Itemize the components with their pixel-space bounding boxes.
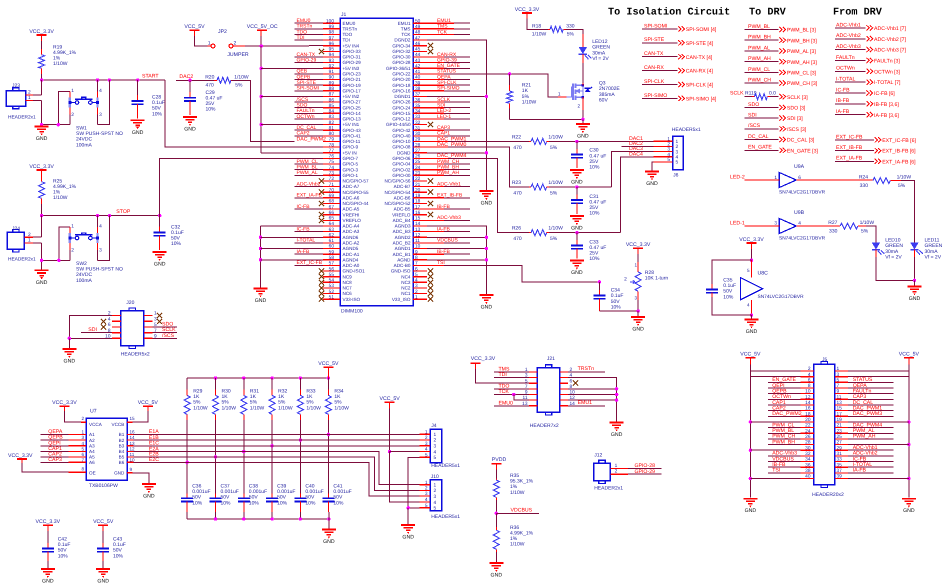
svg-text:71: 71 bbox=[329, 182, 335, 188]
svg-text:ADC-A0: ADC-A0 bbox=[343, 263, 360, 268]
svg-text:74: 74 bbox=[329, 165, 335, 171]
svg-text:17: 17 bbox=[837, 411, 843, 417]
svg-text:37: 37 bbox=[415, 92, 421, 98]
svg-text:B6: B6 bbox=[119, 460, 125, 465]
svg-text:R24: R24 bbox=[859, 175, 868, 181]
svg-text:I-TOTAL: I-TOTAL bbox=[836, 77, 856, 83]
svg-text:85: 85 bbox=[329, 103, 335, 109]
svg-text:PWM_BH: PWM_BH bbox=[748, 35, 771, 41]
svg-text:10: 10 bbox=[805, 389, 811, 395]
svg-text:DAC4: DAC4 bbox=[629, 151, 643, 157]
resistor R21 bbox=[509, 74, 511, 85]
svg-text:DAC_PWM3: DAC_PWM3 bbox=[853, 411, 883, 417]
ground below J20 bbox=[62, 349, 76, 354]
svg-text:100mA: 100mA bbox=[76, 142, 93, 148]
wire rail to GND vertical at J23 bbox=[42, 124, 59, 126]
svg-text:2: 2 bbox=[808, 366, 811, 372]
svg-text:1/10W: 1/10W bbox=[510, 542, 525, 548]
ground for left GND bus bbox=[254, 289, 268, 294]
svg-text:J4: J4 bbox=[431, 423, 437, 429]
svg-text:AGND5: AGND5 bbox=[343, 246, 359, 251]
capacitor C30 bbox=[576, 142, 578, 150]
svg-text:10%: 10% bbox=[277, 500, 288, 506]
svg-text:13: 13 bbox=[837, 400, 843, 406]
svg-text:1: 1 bbox=[634, 263, 637, 268]
svg-text:10%: 10% bbox=[333, 500, 344, 506]
svg-text:SPI-CLK [4]: SPI-CLK [4] bbox=[686, 83, 714, 89]
ground below J24 bbox=[35, 270, 49, 275]
svg-text:62: 62 bbox=[329, 233, 335, 239]
svg-text:GND: GND bbox=[481, 201, 493, 207]
capacitor C33 bbox=[576, 233, 578, 240]
svg-text:GND: GND bbox=[646, 181, 658, 187]
net LED-2 to U9A input bbox=[745, 179, 780, 181]
svg-text:3: 3 bbox=[99, 112, 102, 118]
svg-text:470: 470 bbox=[513, 236, 522, 242]
svg-text:5: 5 bbox=[676, 160, 679, 166]
connector J1 DIMM100 body bbox=[340, 18, 413, 306]
svg-text:1/10W: 1/10W bbox=[193, 405, 208, 411]
resistor R22 bbox=[529, 141, 531, 143]
svg-text:ADC-B6: ADC-B6 bbox=[394, 195, 411, 200]
svg-text:J5: J5 bbox=[822, 357, 828, 363]
svg-text:5%: 5% bbox=[550, 190, 558, 196]
svg-text:GPIO-08: GPIO-08 bbox=[392, 145, 411, 150]
svg-text:40: 40 bbox=[805, 474, 811, 480]
svg-text:HEADER5x1: HEADER5x1 bbox=[672, 127, 701, 133]
svg-text:51: 51 bbox=[329, 294, 335, 300]
svg-text:10%: 10% bbox=[589, 165, 600, 171]
ground below R36 bbox=[489, 563, 503, 568]
left VCC bus of J5 bbox=[749, 364, 751, 497]
svg-text:0.0: 0.0 bbox=[769, 90, 776, 96]
svg-text:3: 3 bbox=[425, 441, 428, 447]
svg-text:1/10W: 1/10W bbox=[278, 405, 293, 411]
ground below U8C bbox=[745, 320, 759, 325]
svg-text:SPI-SOMI [4]: SPI-SOMI [4] bbox=[686, 27, 717, 33]
svg-text:61: 61 bbox=[329, 238, 335, 244]
GND bus B right of J1 (AGND pins 14..8) bbox=[427, 226, 486, 294]
svg-text:GPIO-22: GPIO-22 bbox=[392, 72, 411, 77]
capacitors C36-C41 bbox=[181, 484, 352, 513]
svg-text:GPIO-33: GPIO-33 bbox=[343, 49, 362, 54]
svg-text:GND: GND bbox=[323, 539, 335, 545]
svg-text:330: 330 bbox=[829, 228, 838, 234]
svg-text:5: 5 bbox=[667, 157, 670, 163]
svg-text:+5V IN4: +5V IN4 bbox=[343, 43, 360, 48]
svg-text:56: 56 bbox=[329, 266, 335, 272]
svg-text:OCTWn [3]: OCTWn [3] bbox=[874, 69, 900, 75]
svg-text:1/10W: 1/10W bbox=[522, 99, 537, 105]
svg-text:HEADER20x2: HEADER20x2 bbox=[812, 492, 844, 498]
svg-text:ADC_B1: ADC_B1 bbox=[393, 252, 411, 257]
svg-text:GPIO-40: GPIO-40 bbox=[392, 134, 411, 139]
svg-text:25: 25 bbox=[415, 159, 421, 165]
svg-text:DAC_PWM2: DAC_PWM2 bbox=[772, 411, 802, 417]
svg-text:2: 2 bbox=[434, 438, 437, 444]
svg-text:6: 6 bbox=[81, 452, 84, 457]
resistor R23 bbox=[529, 186, 531, 188]
svg-text:5%: 5% bbox=[550, 145, 558, 151]
svg-text:TDI: TDI bbox=[499, 372, 507, 378]
svg-text:12: 12 bbox=[805, 394, 811, 400]
resistor R24 bbox=[873, 178, 890, 184]
wire rail to GND vertical at J24 bbox=[42, 259, 59, 261]
svg-text:24: 24 bbox=[415, 165, 421, 171]
svg-text:GPIO-34: GPIO-34 bbox=[392, 43, 411, 48]
svg-text:PWM_AL: PWM_AL bbox=[297, 170, 318, 176]
svg-text:U9A: U9A bbox=[794, 164, 805, 170]
svg-text:49: 49 bbox=[415, 24, 421, 30]
svg-text:25: 25 bbox=[837, 434, 843, 440]
svg-text:31: 31 bbox=[837, 451, 843, 457]
wire STATUS J1 pin41 to R21 and Q3 gate bbox=[470, 74, 558, 97]
svg-text:35: 35 bbox=[837, 462, 843, 468]
no-connect J20 right pins 1,3 bbox=[157, 313, 162, 318]
svg-text:4: 4 bbox=[425, 497, 428, 503]
svg-text:10%: 10% bbox=[206, 107, 217, 113]
svg-text:4: 4 bbox=[425, 447, 428, 453]
svg-text:/SCS: /SCS bbox=[162, 333, 175, 339]
svg-text:VDCBUS: VDCBUS bbox=[511, 508, 533, 514]
svg-text:NC1: NC1 bbox=[401, 291, 411, 296]
svg-text:GND: GND bbox=[746, 329, 758, 335]
no-connect J21 pin6 bbox=[573, 381, 578, 386]
svg-text:3: 3 bbox=[434, 443, 437, 449]
svg-text:SCLK: SCLK bbox=[730, 90, 744, 96]
led LED10 bbox=[872, 243, 880, 250]
svg-text:1/10W: 1/10W bbox=[222, 405, 237, 411]
svg-text:68: 68 bbox=[329, 199, 335, 205]
svg-text:38: 38 bbox=[415, 86, 421, 92]
svg-text:1: 1 bbox=[434, 432, 437, 438]
svg-text:TDI: TDI bbox=[297, 35, 305, 41]
wire R24 to LED11 bbox=[890, 180, 901, 182]
svg-text:8: 8 bbox=[808, 383, 811, 389]
wire U9A output to R24 bbox=[796, 179, 873, 181]
svg-text:GPIO-29: GPIO-29 bbox=[297, 57, 317, 63]
svg-text:EXT_IC-FB: EXT_IC-FB bbox=[297, 260, 323, 266]
ground below C30 bbox=[570, 170, 584, 175]
svg-text:GND: GND bbox=[114, 471, 125, 476]
svg-text:2: 2 bbox=[415, 289, 418, 295]
svg-text:GPIO-11: GPIO-11 bbox=[343, 139, 361, 144]
svg-text:GPIO-15: GPIO-15 bbox=[392, 111, 411, 116]
svg-text:3: 3 bbox=[676, 149, 679, 155]
svg-text:2: 2 bbox=[425, 435, 428, 441]
svg-text:2: 2 bbox=[28, 232, 31, 238]
svg-text:HEADER5x2: HEADER5x2 bbox=[121, 351, 150, 357]
svg-text:B3: B3 bbox=[119, 444, 125, 449]
svg-text:J24: J24 bbox=[12, 226, 20, 232]
svg-text:GND: GND bbox=[577, 134, 589, 140]
svg-text:24: 24 bbox=[805, 428, 811, 434]
svg-text:28: 28 bbox=[415, 142, 421, 148]
svg-text:VCC_3.3V: VCC_3.3V bbox=[8, 453, 33, 459]
svg-text:GPIO-30: GPIO-30 bbox=[392, 55, 411, 60]
svg-text:19: 19 bbox=[837, 417, 843, 423]
svg-text:J10: J10 bbox=[431, 474, 439, 480]
svg-text:39: 39 bbox=[415, 80, 421, 86]
wire START to J1 pin 78 bbox=[165, 80, 323, 147]
svg-text:11: 11 bbox=[415, 238, 420, 244]
svg-text:DAC2: DAC2 bbox=[629, 141, 643, 147]
svg-text:GPIO-16: GPIO-16 bbox=[392, 88, 411, 93]
svg-text:GND: GND bbox=[491, 573, 503, 579]
svg-text:SN74LVC2G17DBVR: SN74LVC2G17DBVR bbox=[779, 190, 826, 196]
J5 right labelled nets bbox=[848, 377, 893, 474]
svg-text:63: 63 bbox=[329, 227, 335, 233]
wire C34 bottom to R28 bottom junction bbox=[599, 310, 638, 312]
net TRSTn from J21 pin2 bbox=[568, 371, 605, 373]
svg-text:GPIO-29: GPIO-29 bbox=[343, 60, 362, 65]
svg-text:ADC-A2: ADC-A2 bbox=[343, 241, 360, 246]
svg-text:55: 55 bbox=[329, 272, 335, 278]
svg-text:NC2: NC2 bbox=[401, 286, 411, 291]
svg-text:GPIO-44/50: GPIO-44/50 bbox=[386, 122, 411, 127]
svg-text:8: 8 bbox=[81, 466, 84, 471]
svg-text:LED-2: LED-2 bbox=[730, 174, 745, 180]
svg-text:40: 40 bbox=[415, 75, 421, 81]
resistor R20 bbox=[214, 79, 217, 81]
svg-text:10%: 10% bbox=[611, 304, 622, 310]
svg-text:GND: GND bbox=[632, 327, 644, 333]
capacitor C32 bbox=[159, 216, 161, 227]
svg-text:2: 2 bbox=[28, 90, 31, 96]
svg-text:14: 14 bbox=[130, 435, 136, 440]
svg-text:81: 81 bbox=[329, 125, 335, 131]
ground below J10 bus bbox=[401, 525, 415, 530]
svg-text:10%: 10% bbox=[723, 294, 734, 300]
svg-text:TXB0106PW: TXB0106PW bbox=[89, 483, 118, 489]
U7 power pins bbox=[81, 421, 86, 423]
svg-text:27: 27 bbox=[837, 440, 843, 446]
svg-text:6: 6 bbox=[570, 378, 573, 384]
svg-text:2: 2 bbox=[434, 488, 437, 494]
svg-text:1: 1 bbox=[434, 482, 437, 488]
header J20 HEADER5x2 bbox=[121, 311, 144, 346]
svg-text:96: 96 bbox=[329, 41, 335, 47]
svg-text:1/10W: 1/10W bbox=[234, 74, 249, 80]
svg-text:5%: 5% bbox=[898, 183, 906, 189]
svg-text:GPIO-14: GPIO-14 bbox=[343, 111, 362, 116]
svg-text:38: 38 bbox=[805, 468, 811, 474]
net LED-1 to U9B input bbox=[745, 225, 780, 227]
svg-text:GPIO-28: GPIO-28 bbox=[392, 60, 411, 65]
svg-text:A1: A1 bbox=[89, 432, 95, 437]
svg-text:3: 3 bbox=[154, 316, 157, 322]
svg-text:ADC-A5: ADC-A5 bbox=[343, 207, 360, 212]
wire R27 to LED10 bbox=[858, 225, 866, 227]
svg-text:1: 1 bbox=[81, 429, 84, 434]
svg-text:1: 1 bbox=[837, 366, 840, 372]
svg-text:IC-FB: IC-FB bbox=[297, 226, 311, 232]
svg-text:2: 2 bbox=[667, 142, 670, 148]
svg-text:1: 1 bbox=[28, 238, 31, 244]
svg-text:5: 5 bbox=[747, 268, 750, 273]
svg-text:SN74LVC2G17DBVR: SN74LVC2G17DBVR bbox=[758, 294, 805, 300]
svg-text:ADC-Vhb2: ADC-Vhb2 bbox=[297, 181, 321, 187]
svg-text:67: 67 bbox=[329, 204, 335, 210]
svg-text:88: 88 bbox=[329, 86, 335, 92]
svg-text:PWM_BH [3]: PWM_BH [3] bbox=[787, 38, 818, 44]
U7 GND pin 9 bbox=[127, 472, 132, 474]
U7 OE pin with VCC_3.3V bbox=[68, 471, 86, 473]
svg-text:17: 17 bbox=[415, 204, 421, 210]
connector J1 pin rows, stubs, numbers, names bbox=[323, 18, 427, 301]
ground below J21 bus bbox=[610, 423, 624, 428]
svg-text:J12: J12 bbox=[594, 452, 602, 458]
no-connect J20 left pins 4,6 bbox=[101, 319, 106, 324]
svg-text:IA-FB: IA-FB bbox=[297, 249, 310, 255]
svg-text:42: 42 bbox=[415, 64, 421, 70]
svg-text:AGND: AGND bbox=[397, 257, 411, 262]
svg-text:60V: 60V bbox=[599, 97, 609, 103]
svg-text:6: 6 bbox=[108, 322, 111, 328]
led LED12 bbox=[579, 47, 587, 54]
svg-text:84: 84 bbox=[329, 109, 335, 115]
svg-text:AGND2: AGND2 bbox=[395, 235, 411, 240]
From DRV off-page nets bbox=[835, 22, 907, 119]
svg-text:GPIO-19: GPIO-19 bbox=[343, 83, 362, 88]
svg-text:EXT_IC-FB [6]: EXT_IC-FB [6] bbox=[882, 138, 916, 144]
svg-text:VCC_3.3V: VCC_3.3V bbox=[29, 29, 54, 35]
svg-text:DIMM100: DIMM100 bbox=[341, 309, 363, 315]
svg-text:73: 73 bbox=[329, 171, 335, 177]
resistor R26 bbox=[529, 232, 531, 234]
ground below left J5 bus bbox=[743, 499, 757, 504]
svg-text:NC3: NC3 bbox=[401, 280, 411, 285]
wire riser to J6 pin3 DAC3 bbox=[611, 152, 653, 187]
svg-text:GPIO-12: GPIO-12 bbox=[392, 117, 411, 122]
svg-text:U7: U7 bbox=[90, 409, 97, 415]
svg-text:97: 97 bbox=[329, 35, 335, 41]
svg-text:EXT_IB-FB: EXT_IB-FB bbox=[437, 193, 463, 199]
svg-text:12: 12 bbox=[130, 447, 136, 452]
svg-text:HEADER2x1: HEADER2x1 bbox=[8, 256, 36, 262]
svg-text:54: 54 bbox=[329, 278, 335, 284]
svg-text:VCC_5V: VCC_5V bbox=[899, 352, 920, 358]
svg-text:B5: B5 bbox=[119, 455, 125, 460]
left side labelled nets of J1 bbox=[295, 18, 324, 266]
svg-text:PWM_CH: PWM_CH bbox=[748, 78, 771, 84]
svg-text:From DRV: From DRV bbox=[833, 8, 883, 19]
J21 left nets bbox=[494, 371, 529, 373]
svg-text:GND: GND bbox=[97, 579, 109, 585]
svg-text:48: 48 bbox=[415, 30, 421, 36]
svg-text:20: 20 bbox=[805, 417, 811, 423]
right side labelled nets of J1 bbox=[427, 18, 470, 266]
svg-text:AGND3: AGND3 bbox=[395, 224, 411, 229]
svg-text:EMU0: EMU0 bbox=[343, 21, 356, 26]
svg-text:4: 4 bbox=[415, 278, 418, 284]
net EMU1 from J21 pin14 bbox=[568, 405, 605, 407]
svg-text:/SCS [3]: /SCS [3] bbox=[787, 127, 807, 133]
svg-text:U8C: U8C bbox=[758, 271, 769, 277]
svg-text:VREFHI: VREFHI bbox=[343, 212, 360, 217]
svg-text:VCC_3.3V: VCC_3.3V bbox=[36, 519, 61, 525]
svg-text:3: 3 bbox=[667, 147, 670, 153]
svg-text:GPIO-41: GPIO-41 bbox=[343, 134, 362, 139]
svg-text:5: 5 bbox=[425, 452, 428, 458]
svg-text:34: 34 bbox=[415, 109, 421, 115]
svg-text:10%: 10% bbox=[249, 500, 260, 506]
svg-text:VREFLO: VREFLO bbox=[392, 212, 411, 217]
svg-text:VCC_3.3V: VCC_3.3V bbox=[626, 242, 651, 248]
svg-text:7: 7 bbox=[81, 457, 84, 462]
svg-text:TMS: TMS bbox=[401, 26, 411, 31]
svg-text:ADC-Vhb1: ADC-Vhb1 bbox=[437, 181, 461, 187]
svg-text:GPIO-24: GPIO-24 bbox=[392, 105, 411, 110]
svg-text:10%: 10% bbox=[171, 241, 182, 247]
svg-text:EXT_IC-FB: EXT_IC-FB bbox=[836, 134, 863, 140]
svg-text:10: 10 bbox=[415, 244, 421, 250]
wire J24 to STOP and GND bbox=[41, 216, 43, 238]
svg-text:SPI-STE: SPI-STE bbox=[644, 37, 665, 43]
svg-text:NC9: NC9 bbox=[343, 274, 353, 279]
svg-text:NC/GPIO-55: NC/GPIO-55 bbox=[343, 190, 369, 195]
header J23 bbox=[6, 91, 25, 106]
svg-text:CAN-RX [4]: CAN-RX [4] bbox=[686, 69, 714, 75]
svg-text:HEADER2x1: HEADER2x1 bbox=[594, 486, 623, 492]
svg-text:100mA: 100mA bbox=[76, 278, 93, 284]
svg-text:ADC-A4: ADC-A4 bbox=[343, 224, 360, 229]
svg-text:16: 16 bbox=[805, 406, 811, 412]
svg-text:91: 91 bbox=[329, 69, 335, 75]
svg-text:B1: B1 bbox=[119, 432, 125, 437]
svg-text:VCC_5V: VCC_5V bbox=[184, 24, 205, 30]
svg-text:V33_ISO: V33_ISO bbox=[392, 297, 411, 302]
svg-text:20: 20 bbox=[415, 187, 421, 193]
svg-text:A5: A5 bbox=[89, 455, 95, 460]
wire J6 pin5 to GND bbox=[652, 162, 654, 171]
svg-text:NC/GPIO-57: NC/GPIO-57 bbox=[343, 179, 369, 184]
svg-text:LED-1: LED-1 bbox=[437, 114, 451, 120]
svg-text:GND: GND bbox=[64, 359, 76, 365]
svg-text:2: 2 bbox=[81, 416, 84, 421]
svg-text:4: 4 bbox=[808, 372, 811, 378]
svg-text:470: 470 bbox=[513, 145, 522, 151]
svg-text:4: 4 bbox=[99, 224, 102, 230]
svg-text:VCCA: VCCA bbox=[89, 422, 103, 427]
svg-text:GND: GND bbox=[184, 127, 196, 133]
svg-text:DC_CAL [3]: DC_CAL [3] bbox=[787, 138, 815, 144]
svg-text:16: 16 bbox=[415, 210, 421, 216]
svg-text:SPI-CLK: SPI-CLK bbox=[644, 79, 665, 85]
svg-text:GND-ISO1: GND-ISO1 bbox=[343, 269, 366, 274]
svg-text:VCC_3.3V: VCC_3.3V bbox=[471, 356, 496, 362]
svg-text:14: 14 bbox=[805, 400, 811, 406]
capacitor C31 bbox=[576, 187, 578, 195]
svg-text:330: 330 bbox=[566, 23, 575, 29]
svg-text:3: 3 bbox=[434, 494, 437, 500]
resistors R29-R34 bbox=[184, 378, 349, 420]
svg-text:GPIO-13: GPIO-13 bbox=[343, 117, 362, 122]
svg-text:GND: GND bbox=[132, 130, 144, 136]
svg-text:44: 44 bbox=[415, 52, 421, 58]
wire R18 to LED12 bbox=[566, 29, 583, 34]
ground below right J5 bus bbox=[902, 499, 916, 504]
svg-text:33: 33 bbox=[837, 457, 843, 463]
To DRV off-page nets PWM bbox=[745, 24, 818, 87]
svg-text:JUMPER: JUMPER bbox=[227, 52, 249, 58]
switch SW2 bbox=[59, 227, 70, 260]
svg-text:VCC_3.3V: VCC_3.3V bbox=[515, 7, 540, 13]
svg-text:SPI-SOMI: SPI-SOMI bbox=[644, 23, 667, 29]
U7 A-side input nets bbox=[68, 433, 86, 435]
GND bus left of J1 lower bbox=[260, 226, 262, 288]
svg-text:EMU1: EMU1 bbox=[578, 400, 593, 406]
